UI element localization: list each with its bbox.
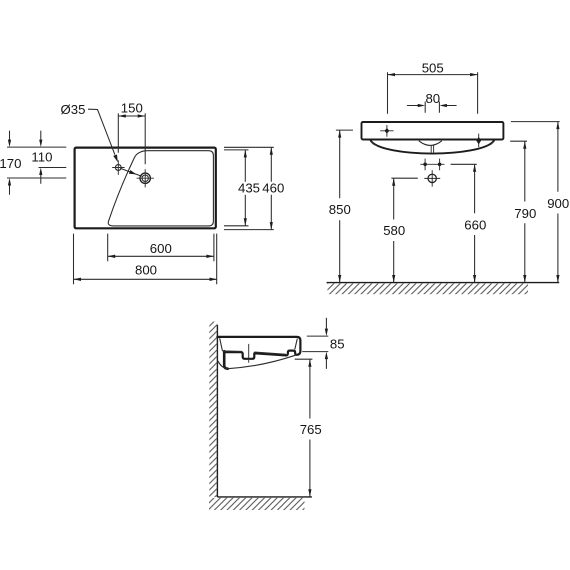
svg-text:435: 435 xyxy=(238,181,260,196)
svg-text:800: 800 xyxy=(135,263,157,278)
dimension 435 (plan right inner depth) xyxy=(224,150,260,226)
svg-text:600: 600 xyxy=(150,241,172,256)
front view: bowl underside curve xyxy=(371,141,494,154)
dimension 85 (side rim thickness) xyxy=(302,318,344,369)
side view: underside sweep curve xyxy=(218,355,296,369)
svg-text:850: 850 xyxy=(329,202,351,217)
dimension 850 (front left height) xyxy=(329,130,353,282)
side view: floor hatching xyxy=(209,498,305,510)
dimension 660 (front height to bolts) xyxy=(451,164,487,282)
svg-text:790: 790 xyxy=(514,206,536,221)
front view: bowl inner corner arcs xyxy=(372,141,493,145)
svg-text:505: 505 xyxy=(422,60,444,75)
svg-text:460: 460 xyxy=(262,181,284,196)
dimension 110 (plan left) xyxy=(31,131,66,184)
svg-text:660: 660 xyxy=(464,218,486,233)
front view: drain outlet crosshair circle xyxy=(424,170,440,186)
svg-text:110: 110 xyxy=(31,150,52,165)
dimension 765 (side underside height) xyxy=(295,359,322,497)
plan view: basin inner bowl outline xyxy=(108,151,213,226)
dimension 790 (front height to rim bottom) xyxy=(510,141,536,282)
side view: inner bowl thin lines xyxy=(220,338,298,354)
side view: wall hatching xyxy=(209,322,217,498)
dimension 505 (front top) xyxy=(388,60,478,114)
svg-text:150: 150 xyxy=(121,100,143,115)
dimension 460 (plan right outer depth) xyxy=(224,147,284,229)
side view: wall line xyxy=(216,325,218,497)
leader arrow from faucet hole to drain hole xyxy=(120,168,142,176)
side view: overflow centerline xyxy=(248,344,250,363)
dimension 150 (hole spacing, plan top) xyxy=(118,100,145,164)
plan view: basin outer rim rectangle xyxy=(75,148,216,229)
dimension 600 (plan bottom inner width) xyxy=(108,234,214,262)
svg-text:85: 85 xyxy=(330,336,345,351)
dimension 900 (front overall height) xyxy=(511,122,569,283)
plan view: drain hole (double crosshair circle) xyxy=(137,169,154,187)
side view: floor line xyxy=(217,496,312,498)
side view: basin profile outline xyxy=(217,337,300,359)
front view: fixing bolt markers row xyxy=(420,159,444,171)
svg-text:Ø35: Ø35 xyxy=(61,102,86,117)
dimension 800 (plan bottom overall width) xyxy=(74,234,218,285)
svg-text:170: 170 xyxy=(0,156,21,171)
front view: floor line xyxy=(327,282,560,284)
dimension 170 (plan far left) xyxy=(0,131,66,195)
front view: left fixing marker xyxy=(380,125,393,137)
plan view: faucet hole left (crosshair circle) xyxy=(112,160,124,175)
label O35 with leader arrow to faucet hole xyxy=(61,102,118,162)
dimension 80 (front top small) xyxy=(407,91,457,113)
front view: floor hatching xyxy=(328,283,529,294)
side view: front apron thick edge xyxy=(224,351,228,369)
svg-text:765: 765 xyxy=(300,422,322,437)
dimension 580 (front height to drain) xyxy=(383,178,418,282)
front view: drain recess arc and trap stub xyxy=(419,141,442,154)
front view: right fixing marker xyxy=(387,125,481,147)
svg-text:580: 580 xyxy=(383,223,405,238)
svg-text:80: 80 xyxy=(425,91,440,106)
front view: rim slab rectangle xyxy=(362,122,504,140)
svg-text:900: 900 xyxy=(547,196,569,211)
